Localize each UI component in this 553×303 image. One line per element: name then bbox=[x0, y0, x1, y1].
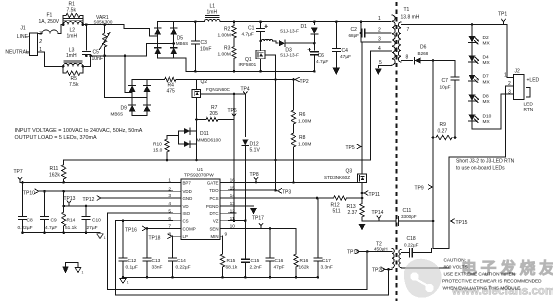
PCS wire with R12 bbox=[228, 197, 333, 199]
D5 diode upper-left bbox=[154, 28, 161, 34]
svg-text:D11: D11 bbox=[200, 131, 209, 137]
LED D8 bbox=[469, 95, 476, 101]
bridge rectifier D5 branch 2 bbox=[173, 22, 175, 58]
svg-text:to use on-board LEDs: to use on-board LEDs bbox=[456, 166, 505, 172]
bottom loop wire 2 (CS to TP20) bbox=[116, 221, 389, 295]
LED RTN clip bbox=[527, 88, 531, 98]
resistor R16 bbox=[295, 228, 297, 254]
chassis ground icon bbox=[66, 263, 79, 268]
svg-text:C14: C14 bbox=[177, 258, 186, 264]
Q3 drain line from T1 pin 3 node bbox=[361, 42, 363, 174]
svg-text:C12: C12 bbox=[128, 258, 137, 264]
diode D6 bbox=[415, 57, 421, 63]
svg-text:TP13: TP13 bbox=[64, 196, 76, 202]
U1 pin 4 VD bbox=[173, 205, 182, 207]
svg-text:TP17: TP17 bbox=[252, 215, 264, 221]
svg-text:D7: D7 bbox=[483, 74, 489, 80]
svg-text:PROTECTIVE EYEWEAR IS RECOMMEN: PROTECTIVE EYEWEAR IS RECOMMENDED bbox=[442, 279, 542, 284]
TP6 branch column bbox=[233, 94, 235, 120]
auxiliary winding sense wire (long horizontal) bbox=[64, 159, 371, 161]
svg-text:J1: J1 bbox=[20, 26, 26, 32]
svg-text:1.00M: 1.00M bbox=[298, 142, 311, 148]
TP19 wire to T2 bbox=[360, 251, 392, 253]
svg-text:TP2: TP2 bbox=[300, 79, 309, 85]
svg-text:1: 1 bbox=[378, 16, 381, 22]
svg-text:VZ: VZ bbox=[213, 219, 219, 224]
D9 diode upper-right bbox=[144, 85, 151, 91]
TP6 column down to VZ wire bbox=[233, 120, 235, 221]
svg-text:7: 7 bbox=[407, 27, 410, 33]
svg-text:0.22µF: 0.22µF bbox=[176, 264, 191, 270]
svg-text:TP7: TP7 bbox=[14, 169, 23, 175]
svg-text:NEUTRAL: NEUTRAL bbox=[5, 50, 29, 56]
VD wire bbox=[64, 205, 173, 207]
svg-text:2: 2 bbox=[38, 39, 42, 45]
bridge rectifier D9 branch 2 bbox=[146, 80, 148, 116]
inductor L3 with parallel resistor R5 bbox=[63, 63, 83, 66]
svg-text:D1: D1 bbox=[301, 24, 308, 30]
resistor R8 bbox=[293, 124, 295, 133]
svg-text:33nF: 33nF bbox=[152, 264, 163, 270]
Q1 source to return rail bbox=[260, 59, 262, 72]
svg-text:10nF: 10nF bbox=[92, 56, 103, 62]
diode D3 bbox=[273, 41, 279, 43]
bridge rectifier D9 branch 1 bbox=[131, 80, 133, 116]
VDD wire bbox=[39, 190, 172, 192]
svg-text:C15: C15 bbox=[251, 258, 260, 264]
BP7 wire bbox=[20, 181, 173, 183]
resistor R12 bbox=[334, 196, 347, 200]
D9 AC input 1 bbox=[125, 56, 132, 93]
svg-text:MB6S: MB6S bbox=[111, 112, 124, 117]
wire fuse to L2 bbox=[58, 25, 63, 34]
svg-text:2.2nF: 2.2nF bbox=[250, 264, 262, 270]
transistor Q1 bbox=[256, 50, 265, 59]
resistor R14 bbox=[63, 191, 65, 212]
analog ground rail bbox=[23, 232, 101, 234]
Q2 wire to TP4 node bbox=[201, 94, 246, 97]
svg-text:4.7µF: 4.7µF bbox=[242, 32, 254, 38]
VZ wire bbox=[228, 220, 245, 222]
svg-text:PCS: PCS bbox=[209, 196, 218, 201]
svg-text:DTC: DTC bbox=[209, 211, 218, 216]
svg-text:0.27: 0.27 bbox=[438, 128, 448, 134]
main HV top rail bbox=[158, 21, 205, 23]
svg-text:TP14: TP14 bbox=[372, 210, 384, 216]
capacitor C7 bbox=[454, 61, 456, 77]
DTC wire bbox=[228, 212, 236, 214]
svg-text:2.37: 2.37 bbox=[348, 210, 358, 216]
svg-text:TP11: TP11 bbox=[369, 192, 381, 198]
D9 diode lower-right bbox=[144, 105, 151, 111]
svg-text:1: 1 bbox=[104, 236, 106, 240]
LED D4 bbox=[469, 56, 476, 62]
U1 pin 16 GATE bbox=[220, 181, 228, 183]
svg-text:MX: MX bbox=[483, 79, 491, 85]
capacitor C8 bbox=[22, 182, 24, 216]
svg-text:TDO: TDO bbox=[209, 188, 219, 193]
D9 diode lower-left bbox=[129, 105, 136, 111]
wire to T1 pin 3 bbox=[361, 41, 391, 43]
svg-text:1: 1 bbox=[504, 72, 507, 78]
svg-text:C13: C13 bbox=[152, 258, 161, 264]
svg-text:C10: C10 bbox=[92, 217, 101, 223]
U1 pin 1 BP7 bbox=[173, 181, 182, 183]
D9 diode upper-left bbox=[129, 85, 136, 91]
svg-text:TP18: TP18 bbox=[149, 236, 161, 242]
svg-text:R6: R6 bbox=[299, 112, 306, 118]
svg-text:0.22µF: 0.22µF bbox=[18, 225, 33, 231]
LED D7 bbox=[469, 75, 476, 81]
J2 pin 2 wire to TP15 loop bbox=[449, 86, 514, 249]
Q2 source column down to sense wire bbox=[195, 97, 197, 160]
svg-text:3: 3 bbox=[378, 37, 381, 43]
svg-text:7.5k: 7.5k bbox=[67, 8, 77, 14]
svg-text:Short J3-2 to J3-LED RTN: Short J3-2 to J3-LED RTN bbox=[456, 159, 515, 165]
svg-text:27µF: 27µF bbox=[87, 225, 98, 231]
LED string column bbox=[471, 24, 473, 129]
svg-text:TP3: TP3 bbox=[282, 189, 291, 195]
switching ground rail bbox=[123, 276, 318, 278]
svg-text:S05K300: S05K300 bbox=[94, 20, 113, 25]
svg-text:10µF: 10µF bbox=[440, 84, 451, 90]
svg-text:USE EXTREME CAUTION WHEN: USE EXTREME CAUTION WHEN bbox=[444, 271, 516, 276]
svg-text:MX: MX bbox=[483, 41, 491, 47]
TP20 wire to T2 bbox=[385, 268, 392, 270]
capacitor C11 bbox=[395, 217, 397, 226]
primary return rail bbox=[195, 70, 314, 72]
svg-text:MX: MX bbox=[483, 119, 491, 125]
capacitor C17 bbox=[317, 198, 319, 258]
svg-text:F1: F1 bbox=[47, 13, 53, 19]
U1 pin 10 SEN bbox=[220, 227, 228, 229]
svg-text:1.00M: 1.00M bbox=[218, 52, 231, 58]
D5 diode lower-right bbox=[170, 48, 177, 54]
U1 pin 14 PCS bbox=[220, 197, 228, 199]
CS wire bbox=[116, 220, 173, 222]
D9 bottom wire bbox=[132, 114, 147, 116]
svg-text:D8: D8 bbox=[483, 93, 489, 99]
svg-text:162k: 162k bbox=[299, 264, 310, 270]
resistor R11 bbox=[63, 160, 65, 165]
secondary return bottom rung bbox=[433, 248, 449, 250]
svg-text:162k: 162k bbox=[49, 173, 60, 179]
svg-text:800 VOLTS: 800 VOLTS bbox=[444, 264, 468, 269]
svg-text:0.22µF: 0.22µF bbox=[404, 243, 419, 248]
top rail after L1 bbox=[220, 21, 391, 23]
Q1 gate wire to long vertical bbox=[265, 55, 275, 191]
resistor R15 bbox=[222, 236, 224, 254]
U1 pin 8 LP bbox=[173, 235, 182, 237]
COMP wire bbox=[147, 227, 173, 229]
test point TP2 bbox=[292, 78, 295, 81]
U1 pin 12 DTC bbox=[220, 212, 228, 214]
svg-text:R2: R2 bbox=[224, 27, 231, 33]
D9 top rail bbox=[132, 79, 147, 81]
svg-text:ISO: ISO bbox=[183, 211, 191, 216]
svg-text:R8: R8 bbox=[299, 135, 306, 141]
svg-text:C8: C8 bbox=[27, 217, 33, 223]
svg-text:LED: LED bbox=[524, 101, 534, 107]
connector J1 bbox=[29, 33, 37, 56]
svg-text:3300pF: 3300pF bbox=[401, 214, 417, 219]
U1 pin 7 COMP bbox=[173, 227, 182, 229]
svg-text:TP12: TP12 bbox=[83, 197, 95, 203]
D9 AC input 2 bbox=[105, 56, 147, 98]
U1 pin 3 GND bbox=[173, 197, 182, 199]
svg-text:C5: C5 bbox=[93, 50, 100, 56]
resistor R7 bbox=[196, 119, 206, 121]
svg-text:R9: R9 bbox=[440, 122, 447, 128]
T2 secondary bottom wire bbox=[402, 267, 450, 269]
svg-text:B268: B268 bbox=[418, 51, 429, 56]
svg-text:C1: C1 bbox=[248, 26, 255, 32]
svg-text:C9: C9 bbox=[51, 217, 57, 223]
svg-text:D4: D4 bbox=[483, 54, 489, 60]
svg-text:47µF: 47µF bbox=[340, 54, 351, 60]
svg-text:T1: T1 bbox=[404, 7, 410, 13]
svg-text:FQN1N60C: FQN1N60C bbox=[206, 87, 231, 92]
svg-text:68pF: 68pF bbox=[349, 33, 360, 38]
svg-text:MX: MX bbox=[483, 60, 491, 66]
svg-text:CS: CS bbox=[183, 219, 189, 224]
wire D5 minus to primary return rail bbox=[174, 58, 196, 71]
capacitor C4 bbox=[335, 22, 337, 49]
resistor R3 bbox=[233, 38, 235, 47]
svg-text:9: 9 bbox=[225, 231, 228, 237]
svg-text:68.1k: 68.1k bbox=[226, 264, 238, 270]
resistor R9 bbox=[436, 135, 452, 139]
svg-text:J2: J2 bbox=[515, 69, 521, 75]
svg-text:GND: GND bbox=[183, 196, 193, 201]
T1 pin 8 wire bbox=[402, 60, 413, 62]
svg-text:TPS92070PW: TPS92070PW bbox=[184, 172, 214, 177]
svg-text:C18: C18 bbox=[407, 236, 416, 242]
zener diode D12 bbox=[244, 97, 246, 137]
svg-text:WHEN EVALUATING THIS MODULE: WHEN EVALUATING THIS MODULE bbox=[443, 286, 521, 291]
svg-text:PGND: PGND bbox=[206, 204, 219, 209]
svg-text:C17: C17 bbox=[322, 258, 331, 264]
transistor Q3 bbox=[358, 174, 367, 183]
svg-text:C4: C4 bbox=[342, 48, 349, 54]
U1 pin 11 VZ bbox=[220, 220, 228, 222]
resistor R10 bbox=[167, 135, 179, 139]
svg-text:0.1µF: 0.1µF bbox=[126, 264, 138, 270]
connector J2 bbox=[514, 75, 525, 100]
U1 pin 9 MIN bbox=[220, 235, 223, 237]
svg-text:+LED: +LED bbox=[527, 77, 540, 83]
wire C1 to Q1 bbox=[260, 32, 262, 51]
svg-text:4.7µF: 4.7µF bbox=[45, 225, 57, 231]
resistor R6 bbox=[293, 80, 295, 111]
svg-text:LP: LP bbox=[183, 234, 188, 239]
svg-text:4.7µF: 4.7µF bbox=[316, 59, 328, 65]
svg-text:D2: D2 bbox=[483, 35, 489, 41]
GATE wire to Q3 bbox=[228, 181, 357, 183]
svg-text:D10: D10 bbox=[483, 113, 492, 119]
test point TP3 bbox=[278, 189, 282, 193]
SEN wire bbox=[228, 227, 296, 229]
capacitor C3 bbox=[194, 22, 196, 41]
capacitor C1 bbox=[260, 22, 262, 29]
isolation barrier dashed line bbox=[396, 2, 398, 301]
LED D2 bbox=[469, 36, 476, 42]
svg-text:TP6: TP6 bbox=[228, 108, 237, 114]
svg-text:COMP: COMP bbox=[183, 226, 196, 231]
resistor R2 bbox=[233, 22, 235, 26]
svg-text:BP7: BP7 bbox=[183, 180, 192, 185]
wire top AC line to bridge D5 bbox=[83, 25, 158, 36]
svg-text:TP9: TP9 bbox=[415, 186, 424, 192]
svg-text:C16: C16 bbox=[275, 258, 284, 264]
svg-text:C7: C7 bbox=[442, 78, 449, 84]
svg-text:LINE: LINE bbox=[17, 34, 29, 40]
fuse F1 bbox=[42, 30, 58, 33]
svg-text:51.1k: 51.1k bbox=[65, 225, 77, 231]
svg-text:IRF5801: IRF5801 bbox=[239, 62, 257, 67]
R8 column to Q3 gate wire bbox=[293, 147, 295, 182]
inductor L2 with parallel resistor R1 bbox=[63, 22, 83, 25]
svg-text:TP1: TP1 bbox=[498, 12, 507, 18]
LED string bottom to J2 pin 3 bbox=[472, 94, 514, 129]
capacitor C14 bbox=[172, 236, 174, 258]
TDO wire to TP3 bbox=[228, 189, 275, 191]
PGND wire and ground arrow bbox=[228, 205, 253, 207]
C4 return arrow (primary power ground) bbox=[335, 52, 337, 69]
node TP2 wire (R4 rail extension) bbox=[196, 79, 293, 81]
svg-text:GATE: GATE bbox=[207, 180, 219, 185]
capacitor C10 bbox=[85, 206, 87, 216]
U1 pin 6 CS bbox=[173, 220, 182, 222]
svg-text:R3: R3 bbox=[224, 46, 231, 52]
svg-text:R14: R14 bbox=[67, 217, 76, 223]
svg-text:Q3: Q3 bbox=[346, 169, 353, 175]
svg-text:3.3nF: 3.3nF bbox=[321, 264, 333, 270]
svg-text:VDD: VDD bbox=[183, 189, 192, 194]
T1 pin 5 wire with chassis arrow bbox=[378, 65, 391, 67]
capacitor C15 bbox=[241, 258, 249, 260]
svg-text:STD3NK60Z: STD3NK60Z bbox=[324, 175, 350, 180]
svg-text:INPUT VOLTAGE = 100VAC to 240V: INPUT VOLTAGE = 100VAC to 240VAC, 50Hz, … bbox=[15, 128, 143, 134]
svg-text:1mH: 1mH bbox=[66, 53, 77, 59]
svg-text:1: 1 bbox=[82, 271, 84, 275]
U1 pin 13 PGND bbox=[220, 205, 228, 207]
secondary output wire from T1 pin 7 bbox=[402, 24, 514, 77]
capacitor C12 bbox=[122, 221, 124, 258]
svg-text:511: 511 bbox=[333, 208, 341, 214]
svg-text:R16: R16 bbox=[300, 258, 309, 264]
D5 diode upper-right bbox=[170, 28, 177, 34]
capacitor C16 bbox=[269, 228, 271, 257]
svg-text:C6: C6 bbox=[318, 53, 325, 59]
diode D1 bbox=[313, 22, 315, 25]
bottom loop wire 1 (ISO to TP19) bbox=[108, 213, 368, 289]
C12 ground marker bbox=[120, 279, 126, 284]
svg-text:3: 3 bbox=[508, 89, 511, 95]
svg-text:2: 2 bbox=[378, 28, 381, 34]
svg-text:1A, 250V: 1A, 250V bbox=[39, 19, 60, 25]
bridge rectifier D5 branch 1 bbox=[157, 22, 159, 58]
svg-text:R10: R10 bbox=[153, 142, 162, 148]
wire J1 pin3 to fuse F1 bbox=[37, 32, 42, 34]
svg-text:VD: VD bbox=[183, 204, 189, 209]
svg-text:MIN: MIN bbox=[210, 234, 218, 239]
svg-text:205: 205 bbox=[210, 111, 219, 117]
svg-text:TP15: TP15 bbox=[456, 220, 468, 226]
svg-text:MB6S: MB6S bbox=[176, 41, 189, 46]
svg-text:SEN: SEN bbox=[209, 226, 218, 231]
svg-text:CAUTION:: CAUTION: bbox=[444, 258, 466, 263]
ferrite bead / inductor on D3 branch bbox=[262, 39, 273, 41]
GND wire bbox=[102, 197, 173, 199]
D5 diode lower-left bbox=[154, 48, 161, 54]
resistor R13 bbox=[360, 204, 364, 218]
AC2 wire entering bridge bbox=[172, 42, 175, 45]
IC U1 TPS92070PW body bbox=[181, 179, 220, 239]
svg-text:RTN: RTN bbox=[524, 107, 534, 113]
svg-text:1.00M: 1.00M bbox=[218, 33, 231, 39]
secondary return column bbox=[432, 61, 434, 249]
svg-text:450µH: 450µH bbox=[374, 246, 388, 251]
svg-text:S1J-13-F: S1J-13-F bbox=[280, 53, 299, 58]
svg-text:MX: MX bbox=[483, 99, 491, 105]
svg-text:15.0: 15.0 bbox=[153, 148, 163, 154]
LED D10 bbox=[469, 115, 476, 121]
transistor Q2 bbox=[195, 80, 197, 90]
U1 pin 2 VDD bbox=[173, 190, 182, 192]
capacitor C18 wire from T2 bbox=[402, 252, 410, 254]
svg-text:8: 8 bbox=[406, 55, 409, 61]
svg-text:C3: C3 bbox=[201, 40, 208, 46]
T1 pin 4 wire to auxiliary sense line bbox=[371, 51, 392, 160]
varistor VAR1 bbox=[104, 25, 106, 33]
svg-text:R11: R11 bbox=[50, 166, 59, 172]
svg-text:1mH: 1mH bbox=[207, 10, 218, 16]
capacitor C2 on T1 pin 2 bbox=[360, 22, 362, 42]
capacitor C5 bbox=[85, 25, 87, 50]
svg-text:1mH: 1mH bbox=[67, 34, 78, 40]
D5 bottom wire bbox=[158, 57, 174, 59]
svg-text:5.1V: 5.1V bbox=[250, 148, 261, 154]
svg-text:13.8 mH: 13.8 mH bbox=[401, 14, 420, 20]
capacitor C13 bbox=[146, 228, 148, 257]
U1 pin 15 TDO bbox=[220, 189, 228, 191]
svg-text:475: 475 bbox=[167, 89, 176, 95]
svg-text:TP4: TP4 bbox=[241, 87, 250, 93]
ISO wire bbox=[108, 212, 173, 214]
R13 bottom node with ground arrow bbox=[361, 217, 363, 221]
analog ground marker bbox=[97, 234, 103, 239]
svg-text:MMBD6100: MMBD6100 bbox=[197, 138, 222, 143]
D12 column continues to VZ/C15 bbox=[244, 146, 246, 259]
watermark logo blob bbox=[404, 259, 442, 298]
resistor R4 bbox=[147, 79, 165, 81]
svg-text:1.00M: 1.00M bbox=[298, 119, 311, 125]
wire J1 pin1 to L3 bbox=[37, 52, 63, 66]
svg-text:R15: R15 bbox=[227, 258, 236, 264]
U1 pin 5 ISO bbox=[173, 212, 182, 214]
svg-text:TP16: TP16 bbox=[125, 227, 137, 233]
inductor L1 bbox=[205, 19, 221, 21]
wire to C11 bbox=[362, 220, 395, 222]
test point TP15 bbox=[451, 219, 455, 223]
Q3 source line bbox=[361, 183, 363, 198]
svg-text:TP10: TP10 bbox=[23, 190, 35, 196]
capacitor C9 bbox=[44, 191, 46, 216]
svg-text:D6: D6 bbox=[420, 45, 427, 51]
wire L3 to lower AC node bbox=[83, 44, 174, 67]
svg-text:S1J-13-F: S1J-13-F bbox=[280, 28, 299, 33]
